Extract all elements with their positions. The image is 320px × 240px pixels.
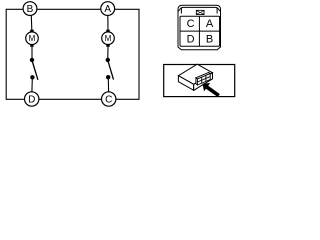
- svg-text:D: D: [187, 33, 195, 45]
- wire switch S1 to terminal D: [31, 79, 33, 93]
- wire motor M2 to switch S2: [107, 47, 109, 59]
- connector 3d body right face: [194, 73, 213, 91]
- inset box frame: [164, 65, 235, 97]
- terminal B: [23, 2, 37, 16]
- motor M1: [26, 30, 39, 47]
- wire A to motor M2: [107, 16, 109, 30]
- svg-text:M: M: [29, 34, 36, 43]
- housing corner chamfer left: [178, 8, 181, 12]
- wire motor M1 to switch S1: [31, 47, 33, 59]
- connector 3d socket: [196, 72, 210, 85]
- terminal C: [102, 92, 116, 106]
- svg-text:A: A: [206, 18, 214, 30]
- connector 3d body top face: [178, 64, 212, 90]
- svg-text:B: B: [206, 33, 213, 45]
- switch S1: [30, 58, 38, 80]
- connector 3d body left face: [178, 76, 193, 91]
- switch S2: [106, 58, 114, 80]
- motor M2: [102, 30, 115, 47]
- housing inner cap line: [181, 7, 217, 13]
- svg-text:A: A: [104, 4, 111, 15]
- wire outer loop rectangle: [6, 9, 139, 99]
- terminal A: [101, 2, 115, 16]
- svg-text:D: D: [28, 95, 35, 106]
- wire switch S2 to terminal C: [107, 78, 109, 91]
- terminal D: [25, 92, 39, 106]
- svg-text:M: M: [105, 34, 112, 43]
- connector face view housing: [178, 5, 221, 50]
- connector lock tab: [196, 10, 205, 15]
- svg-text:B: B: [27, 4, 34, 15]
- housing corner chamfer right: [217, 8, 220, 12]
- svg-text:C: C: [105, 95, 112, 106]
- wire B to motor M1: [30, 16, 33, 30]
- pin table grid: [180, 16, 220, 46]
- pointer arrow: [203, 83, 220, 97]
- svg-text:C: C: [187, 18, 195, 30]
